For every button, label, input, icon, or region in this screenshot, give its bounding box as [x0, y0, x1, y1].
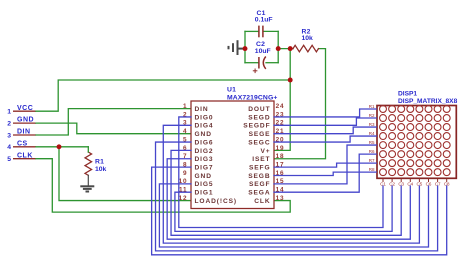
- svg-text:DISP_MATRIX_8X8: DISP_MATRIX_8X8: [398, 98, 458, 105]
- svg-text:GND: GND: [195, 131, 212, 138]
- wire capacitor left rail: [244, 31, 246, 62]
- display LED dot matrix: [380, 106, 451, 176]
- svg-text:DOUT: DOUT: [248, 106, 270, 113]
- svg-text:DIG3: DIG3: [195, 156, 214, 163]
- svg-text:SEGC: SEGC: [248, 139, 270, 146]
- terminal pin VCC: [13, 110, 36, 112]
- wire from C1 right plate: [264, 30, 279, 32]
- wire DIG5 pin10 to display C6: [159, 184, 428, 247]
- resistor R2: [293, 45, 319, 52]
- svg-text:CLK: CLK: [254, 198, 270, 205]
- wire CS node to U1 pin12 LOAD: [59, 147, 191, 201]
- ground symbol below R1: [80, 186, 94, 191]
- wire CS to R1 top: [87, 147, 89, 152]
- wire cap rail to R2 left: [278, 48, 293, 50]
- svg-text:R1: R1: [95, 159, 104, 166]
- svg-text:DIG2: DIG2: [195, 148, 214, 155]
- wire GND terminal to U1 pin4 GND: [36, 123, 191, 134]
- wire DIG2 pin6 to display C3: [171, 150, 401, 235]
- svg-text:R5: R5: [369, 140, 375, 145]
- svg-text:V+: V+: [260, 148, 270, 155]
- wire CS terminal to R1 top: [36, 146, 88, 148]
- svg-text:MAX7219CNG+: MAX7219CNG+: [227, 95, 277, 102]
- svg-text:R1: R1: [369, 104, 375, 109]
- svg-text:9: 9: [183, 170, 187, 177]
- svg-text:LOAD(!CS): LOAD(!CS): [195, 198, 238, 205]
- svg-text:SEGA: SEGA: [248, 190, 270, 197]
- svg-text:GND: GND: [195, 173, 212, 180]
- svg-text:SEGE: SEGE: [249, 131, 271, 138]
- display pin C1 stub: [382, 178, 384, 182]
- wire DIG4 pin3 to display C5: [163, 125, 419, 243]
- svg-text:DIG4: DIG4: [195, 123, 214, 130]
- svg-text:U1: U1: [227, 86, 236, 93]
- wire R2 right to U1 pin18 ISET: [274, 49, 326, 159]
- wire V+ riser to U1 pin19 V+: [274, 49, 290, 151]
- wire DIG0 pin2 to display C1: [179, 117, 383, 228]
- junction dot VCC rail Vplus riser: [288, 78, 293, 83]
- svg-text:R7: R7: [369, 158, 375, 163]
- svg-text:SEGB: SEGB: [248, 173, 270, 180]
- svg-text:CS: CS: [17, 140, 28, 147]
- svg-text:4: 4: [183, 128, 187, 135]
- svg-text:SEGF: SEGF: [249, 181, 271, 188]
- svg-text:1: 1: [183, 103, 187, 110]
- terminal pin GND: [13, 122, 36, 124]
- svg-text:R6: R6: [369, 149, 375, 154]
- wire capacitor right rail: [277, 31, 279, 62]
- wire VCC terminal to V+ rail: [36, 80, 290, 111]
- svg-text:19: 19: [276, 145, 285, 152]
- junction dot R2 Vplus riser: [288, 46, 293, 51]
- svg-text:CLK: CLK: [17, 152, 33, 159]
- svg-text:ISET: ISET: [252, 156, 270, 163]
- svg-text:12: 12: [179, 195, 188, 202]
- terminal pin CLK: [13, 158, 36, 160]
- svg-text:SEGDF: SEGDF: [243, 123, 270, 130]
- capacitor C1: [259, 26, 263, 38]
- display pin C8 stub: [446, 178, 448, 182]
- svg-text:2: 2: [7, 121, 11, 128]
- svg-text:DIG5: DIG5: [195, 181, 214, 188]
- junction dot cap rail R2: [276, 46, 281, 51]
- junction dot CS LOAD: [57, 144, 62, 149]
- svg-text:5: 5: [7, 156, 11, 163]
- svg-text:DIG1: DIG1: [195, 190, 214, 197]
- display DISP1 body: [377, 106, 456, 179]
- wire SEGC pin20 to display R4: [274, 136, 376, 142]
- svg-text:10k: 10k: [302, 35, 314, 42]
- svg-text:R3: R3: [369, 122, 375, 127]
- svg-text:SEGD: SEGD: [248, 114, 270, 121]
- display pin C4 stub: [409, 178, 411, 182]
- svg-text:DIG6: DIG6: [195, 139, 214, 146]
- svg-text:DIG7: DIG7: [195, 165, 214, 172]
- svg-text:4: 4: [7, 144, 11, 151]
- svg-text:R8: R8: [369, 167, 375, 172]
- wire SEGE pin21 to display R3: [274, 127, 376, 134]
- wire from C2 right plate: [266, 62, 278, 64]
- wire to C2 left plate: [245, 62, 258, 64]
- terminal pin DIN: [13, 134, 36, 136]
- display pin C3 stub: [400, 178, 402, 182]
- svg-text:SEFG: SEFG: [249, 165, 271, 172]
- svg-text:10k: 10k: [95, 166, 107, 173]
- svg-text:3: 3: [7, 132, 11, 139]
- wire SEGB pin16 to display R8: [274, 172, 376, 175]
- display pin C5 stub: [418, 178, 420, 182]
- svg-text:R4: R4: [369, 131, 375, 136]
- svg-text:R2: R2: [369, 113, 375, 118]
- svg-text:DIN: DIN: [17, 129, 31, 136]
- wire DIN terminal to U1 pin1 DIN: [36, 109, 191, 135]
- svg-text:VCC: VCC: [17, 105, 33, 112]
- junction dot ground rail: [243, 46, 248, 51]
- wire DIG3 pin7 to display C4: [167, 159, 410, 239]
- svg-text:0.1uF: 0.1uF: [255, 17, 273, 24]
- svg-text:DIG0: DIG0: [195, 114, 214, 121]
- terminal pin CS: [13, 146, 36, 148]
- display pin C7 stub: [437, 178, 439, 182]
- capacitor C2 electrolytic: [259, 57, 266, 69]
- svg-text:C2: C2: [256, 41, 265, 48]
- wire SEGA pin14 to display R6: [274, 154, 376, 192]
- wire DIG7 pin8 to display C8: [152, 167, 447, 255]
- svg-text:DISP1: DISP1: [398, 90, 417, 97]
- wire SEFG pin17 to display R7: [274, 163, 376, 167]
- svg-text:DIN: DIN: [195, 106, 209, 113]
- IC U1 body: [191, 101, 274, 209]
- display pin C2 stub: [391, 178, 393, 182]
- wire CLK terminal to U1 pin13 CLK: [36, 159, 290, 212]
- wire to C1 left plate: [245, 30, 258, 32]
- svg-text:10uF: 10uF: [255, 48, 271, 55]
- svg-text:1: 1: [7, 109, 11, 116]
- wire DIG6 pin5 to display C7: [156, 142, 438, 251]
- ground symbol left of capacitors: [229, 40, 244, 55]
- resistor R1: [85, 152, 92, 175]
- wire SEGF pin15 to display R5: [274, 145, 376, 184]
- wire DIG1 pin11 to display C2: [175, 186, 392, 231]
- C2 polarity plus sign: [253, 69, 258, 74]
- wire SEGDF pin22 to display R2: [274, 118, 376, 125]
- svg-text:13: 13: [276, 195, 285, 202]
- svg-text:24: 24: [276, 103, 285, 110]
- wire R1 bottom to ground: [87, 175, 89, 186]
- display pin C6 stub: [428, 178, 430, 182]
- wire SEGD pin23 to display R1: [274, 109, 376, 117]
- svg-text:GND: GND: [17, 117, 34, 124]
- svg-text:18: 18: [276, 153, 285, 160]
